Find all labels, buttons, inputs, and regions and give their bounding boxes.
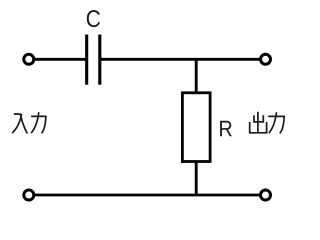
wire resistor bottom lead: [195, 161, 198, 195]
label R: [220, 121, 232, 136]
terminal bottom-right: [261, 190, 271, 200]
resistor R: [182, 93, 210, 162]
label output kanji 力: [269, 113, 284, 133]
capacitor C: [87, 35, 100, 85]
label input kanji 入: [13, 114, 27, 133]
terminal top-right: [261, 54, 271, 64]
terminal bottom-left: [24, 190, 34, 200]
label C: [87, 10, 100, 27]
wire resistor top lead: [195, 59, 198, 93]
terminal top-left: [24, 54, 34, 64]
label output kanji 出: [250, 113, 267, 133]
wire top-left (input to capacitor): [35, 58, 87, 61]
wire bottom: [35, 194, 259, 197]
wire top-right (capacitor to output): [100, 58, 259, 61]
label input kanji 力: [32, 113, 46, 133]
